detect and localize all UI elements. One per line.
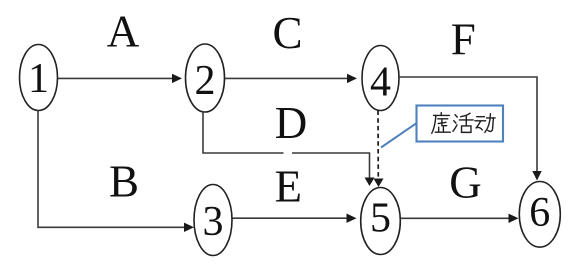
wire arrow F: 4 to 6: [399, 77, 542, 181]
node 4: [362, 46, 399, 111]
node 5: [361, 188, 401, 255]
svg-text:5: 5: [370, 195, 391, 241]
svg-text:F: F: [451, 15, 476, 65]
svg-text:B: B: [109, 157, 139, 207]
wire arrow A: 1 to 2: [58, 74, 182, 83]
node 6: [519, 182, 560, 248]
svg-text:6: 6: [529, 190, 550, 236]
glyph 虚: [432, 113, 450, 134]
wire arrow C: 2 to 4: [225, 74, 357, 83]
wire arrow D: 2 to 5 (with gap under label D): [203, 111, 375, 186]
node 3: [194, 185, 232, 256]
svg-text:G: G: [449, 158, 482, 208]
wire arrow G: 5 to 6: [401, 214, 519, 223]
svg-text:1: 1: [28, 56, 49, 102]
callout box 虚活动 (dummy activity label): [417, 106, 504, 142]
svg-text:4: 4: [370, 59, 391, 105]
glyph 活: [453, 113, 473, 132]
svg-text:2: 2: [195, 58, 216, 104]
wire arrow E: 3 to 5: [233, 214, 357, 223]
node 1: [20, 45, 58, 111]
node 2: [186, 44, 225, 112]
svg-text:A: A: [107, 7, 140, 57]
svg-text:E: E: [275, 162, 303, 212]
svg-text:C: C: [272, 8, 302, 58]
callout leader line: [381, 124, 416, 148]
dummy activity dashed arrow: 4 to 5: [374, 111, 384, 188]
wire arrow B: 1 to 3: [38, 111, 194, 233]
svg-text:3: 3: [203, 199, 224, 245]
svg-text:D: D: [275, 98, 308, 148]
glyph 动: [475, 114, 495, 133]
